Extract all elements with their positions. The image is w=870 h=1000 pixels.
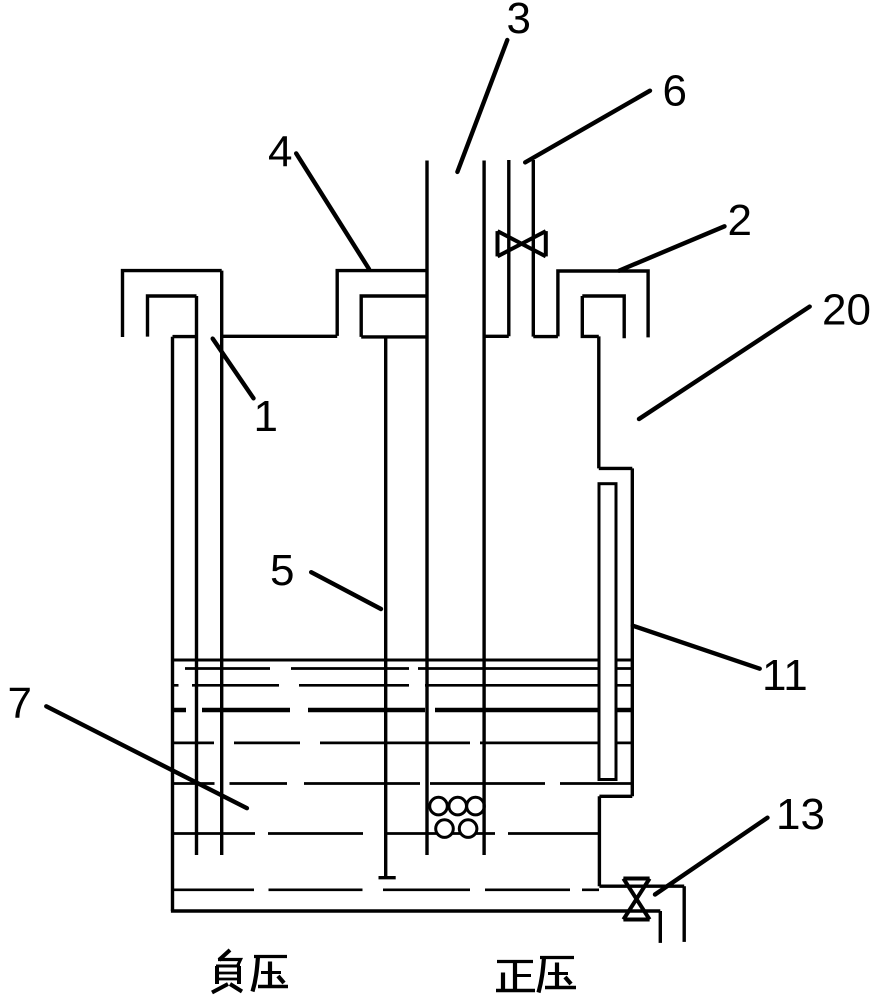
svg-text:1: 1 (254, 392, 278, 441)
liquid dashed line L3 (173, 684, 632, 687)
level gauge 11 tube (599, 484, 616, 780)
svg-text:6: 6 (663, 67, 687, 116)
leader line 7 (46, 706, 247, 808)
tank cover segment b (pipe1 to cap4 leg) (222, 335, 338, 338)
liquid dashed line L2 (185, 667, 632, 670)
tank cover segment c (pipe3 to pipe6) (484, 335, 509, 338)
tank left wall (171, 337, 174, 911)
tank cover segment a (left wall to pipe1) (173, 335, 197, 338)
drain down-pipe left wall (659, 911, 662, 943)
leader line 5 (311, 572, 381, 609)
bubbles in central pipe (430, 797, 485, 837)
cap 2 outer inverted-U (558, 271, 648, 337)
chinese text 负压 (negative pressure) (212, 950, 288, 993)
liquid dashed line L6 (174, 782, 632, 785)
rod 5 foot (379, 876, 396, 879)
svg-text:4: 4 (268, 128, 292, 177)
pipe 6 left wall (507, 160, 510, 336)
liquid dashed line L7 (174, 832, 599, 835)
tank cover segment d (pipe6 to cap2 leg) (533, 335, 558, 338)
svg-text:2: 2 (728, 196, 752, 245)
central pipe 3 right wall (482, 161, 485, 856)
leader line 4 (296, 153, 369, 269)
leader line 6 (525, 91, 650, 163)
pipe 1 right wall (cap1 outer right leg down into liquid) (220, 271, 223, 855)
cap 4 inner box bottom (361, 335, 427, 338)
svg-text:5: 5 (270, 546, 294, 595)
central pipe 3 left wall (425, 161, 428, 856)
valve 13 vertical bowtie (623, 879, 649, 920)
liquid dashed line L5 (174, 742, 632, 745)
tank right wall lower (598, 796, 601, 886)
cap 1 inner inverted-U (148, 296, 197, 337)
svg-text:11: 11 (762, 651, 808, 700)
svg-text:20: 20 (822, 286, 870, 335)
cap 4 outer (left leg + top joining central pipe) (337, 271, 427, 336)
tank right wall upper (597, 336, 600, 468)
chinese text 正压 (positive pressure) (496, 958, 576, 993)
tank bottom (171, 909, 660, 912)
tank right step out (599, 467, 633, 470)
liquid dashed line L4 thick (174, 708, 632, 712)
svg-text:7: 7 (8, 679, 32, 728)
drain down-pipe right wall (683, 886, 686, 942)
cap 4 inner box (361, 296, 427, 337)
drain pipe top edge (599, 885, 684, 888)
tank right wall mid (stepped) (631, 468, 634, 796)
cap 2 inner left leg + jog (582, 296, 599, 336)
liquid dashed line L8 (174, 888, 599, 891)
pipe 1 left wall (cap1 inner right leg down into liquid) (195, 296, 198, 855)
valve 6 bowtie (498, 231, 546, 256)
cap 1 outer inverted-U (123, 271, 222, 337)
leader line 13 (655, 818, 768, 895)
leader line 20 (639, 307, 810, 419)
tank right step back (599, 795, 632, 798)
svg-text:13: 13 (776, 790, 825, 839)
svg-text:3: 3 (507, 0, 531, 43)
leader line 11 (633, 626, 760, 669)
liquid surface solid line (174, 659, 632, 662)
rod 5 hanging from cap 4 (384, 337, 387, 878)
cap 2 inner inverted-U with jog to tank wall (582, 296, 624, 338)
leader line 3 (46, 40, 809, 895)
leader line 1 (213, 339, 254, 399)
leader line 2 (619, 226, 724, 270)
pipe 6 right wall (532, 160, 535, 337)
